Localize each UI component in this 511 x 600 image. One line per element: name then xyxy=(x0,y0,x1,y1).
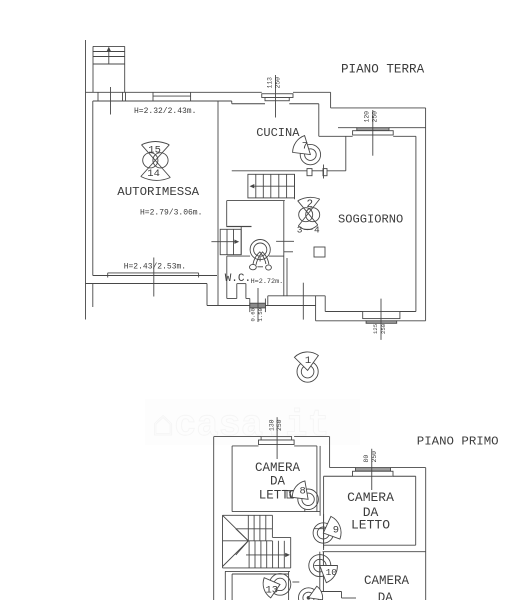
camera1 walls xyxy=(232,446,320,516)
garage door xyxy=(108,258,199,297)
svg-text:CAMERA: CAMERA xyxy=(255,461,301,475)
wall: garage bottom outer xyxy=(86,283,208,285)
wall: garage left inner xyxy=(92,101,94,276)
pillar in soggiorno xyxy=(314,247,325,257)
wall: soggiorno top inner xyxy=(393,135,416,137)
window in garage top wall xyxy=(153,92,191,101)
wall: soggiorno bottom inner xyxy=(325,311,363,313)
svg-text:3: 3 xyxy=(297,224,303,235)
door soggiorno south with sill xyxy=(363,299,400,340)
photo marker 9 xyxy=(313,514,341,548)
svg-text:250: 250 xyxy=(275,77,282,89)
stairs upper flight (ground) xyxy=(248,174,295,199)
photo marker 7 (cucina) xyxy=(293,136,321,165)
svg-text:DA: DA xyxy=(378,591,394,600)
window cucina 113/250 xyxy=(262,75,293,118)
svg-text:0.60: 0.60 xyxy=(249,307,256,321)
landing parapet xyxy=(226,226,251,227)
section tick SW soggiorno xyxy=(302,283,304,320)
tick door hall-soggiorno xyxy=(276,240,294,242)
svg-text:H=2.43/2.53m.: H=2.43/2.53m. xyxy=(124,263,186,272)
photo marker 2 / 3-4 (soggiorno) xyxy=(297,197,320,235)
hall top wall xyxy=(227,200,285,202)
photo marker 11 (cut) xyxy=(292,582,322,600)
wall: wc bottom inner with shower niche xyxy=(227,284,250,299)
svg-text:250: 250 xyxy=(380,323,387,334)
wall: cucina bottom xyxy=(232,170,307,172)
window camera2 north 80/250 xyxy=(353,449,394,490)
svg-text:125: 125 xyxy=(372,324,379,334)
wall: outer step down right of cucina xyxy=(330,92,332,108)
svg-text:CAMERA: CAMERA xyxy=(364,574,410,588)
photo marker 13 xyxy=(263,574,291,598)
svg-text:DA: DA xyxy=(270,475,286,489)
section mark on garage top wall xyxy=(110,87,112,115)
svg-text:PIANO TERRA: PIANO TERRA xyxy=(341,63,425,77)
wall: entrance step soggiorno SW xyxy=(316,296,326,321)
watermark band casa.it xyxy=(145,399,360,447)
svg-text:10: 10 xyxy=(326,567,338,578)
svg-text:80: 80 xyxy=(363,455,370,463)
camera2 walls xyxy=(323,468,426,600)
window wc 0.60/1.50 xyxy=(249,288,265,322)
wall: soggiorno bottom outer xyxy=(316,320,367,322)
wall: first floor left outer xyxy=(213,437,215,600)
wall: garage right xyxy=(217,101,219,306)
stairs lower flight (ground) xyxy=(211,226,241,254)
svg-text:15: 15 xyxy=(148,144,161,156)
svg-text:SOGGIORNO: SOGGIORNO xyxy=(338,213,403,227)
wall: garage top outer xyxy=(86,91,262,93)
wall: cucina/soggiorno inner ledge xyxy=(319,135,353,137)
svg-text:7: 7 xyxy=(302,141,308,153)
svg-text:250: 250 xyxy=(276,419,283,431)
wall step garage/cucina xyxy=(231,101,233,104)
svg-text:H=2.72m.: H=2.72m. xyxy=(251,278,284,286)
hall left wall xyxy=(226,201,228,226)
wall: first floor top outer xyxy=(214,436,261,438)
photo marker 1 (south) xyxy=(294,352,318,382)
svg-text:⌂casa.it: ⌂casa.it xyxy=(152,405,330,447)
wall: wc top xyxy=(227,255,250,257)
stub below garage left xyxy=(92,284,94,308)
photo marker 10 xyxy=(309,552,338,583)
wall: wc bottom right step xyxy=(268,295,325,297)
svg-text:1.50: 1.50 xyxy=(257,307,264,321)
wall: porch top outer xyxy=(331,107,426,109)
wall: cucina right inner xyxy=(318,104,320,137)
camera3 walls xyxy=(320,552,356,598)
wall ticks garage top xyxy=(97,92,99,101)
window soggiorno 120/250 xyxy=(353,110,394,156)
hall right wall xyxy=(283,201,285,297)
svg-text:1: 1 xyxy=(305,355,311,367)
door + jamb near marker 8 xyxy=(283,490,305,511)
photo markers 5-6 cone pair xyxy=(250,252,272,270)
wall: passage step xyxy=(345,136,347,171)
entry steps top-left xyxy=(93,46,125,92)
svg-text:CUCINA: CUCINA xyxy=(256,126,300,140)
svg-text:CAMERA: CAMERA xyxy=(347,490,394,505)
svg-text:120: 120 xyxy=(364,111,371,123)
svg-text:LETTO: LETTO xyxy=(259,488,297,502)
wall: soggiorno right inner xyxy=(415,136,417,311)
svg-text:H=2.79/3.06m.: H=2.79/3.06m. xyxy=(140,209,202,218)
svg-text:H=2.32/2.43m.: H=2.32/2.43m. xyxy=(134,107,196,116)
property boundary line left xyxy=(85,40,87,320)
svg-text:PIANO PRIMO: PIANO PRIMO xyxy=(417,434,499,448)
section tick cucina door xyxy=(323,165,325,179)
window camera1 north xyxy=(259,417,295,459)
svg-text:13: 13 xyxy=(266,584,279,596)
svg-text:250: 250 xyxy=(371,451,378,463)
wall: south step outer xyxy=(206,284,208,306)
wall: outer top right of cucina window xyxy=(293,91,331,93)
wall: soggiorno right outer xyxy=(425,108,427,321)
svg-text:2: 2 xyxy=(307,199,314,211)
wall: cucina top inner xyxy=(232,103,265,105)
svg-text:4: 4 xyxy=(314,224,320,235)
room below stairs walls xyxy=(225,571,290,600)
photo marker 8 xyxy=(292,481,318,510)
svg-text:130: 130 xyxy=(268,419,275,431)
svg-text:250: 250 xyxy=(372,111,379,123)
svg-text:113: 113 xyxy=(267,77,274,89)
wall: NE corner step xyxy=(329,437,331,468)
svg-text:LETTO: LETTO xyxy=(351,517,390,532)
wall: wc left xyxy=(226,256,228,298)
door jambs cucina-soggiorno xyxy=(307,169,312,176)
svg-text:AUTORIMESSA: AUTORIMESSA xyxy=(117,185,199,199)
wall: garage bottom inner xyxy=(93,275,217,277)
wall: soggiorno top outer xyxy=(338,127,357,129)
wall: garage top inner xyxy=(93,100,232,102)
stairs first floor xyxy=(223,515,291,568)
svg-text:14: 14 xyxy=(147,168,160,180)
photo marker 15/14 xyxy=(141,142,171,181)
washbasin wc xyxy=(250,240,270,260)
svg-text:9: 9 xyxy=(333,524,339,536)
svg-text:8: 8 xyxy=(300,486,306,498)
svg-text:W.C.: W.C. xyxy=(225,273,251,285)
